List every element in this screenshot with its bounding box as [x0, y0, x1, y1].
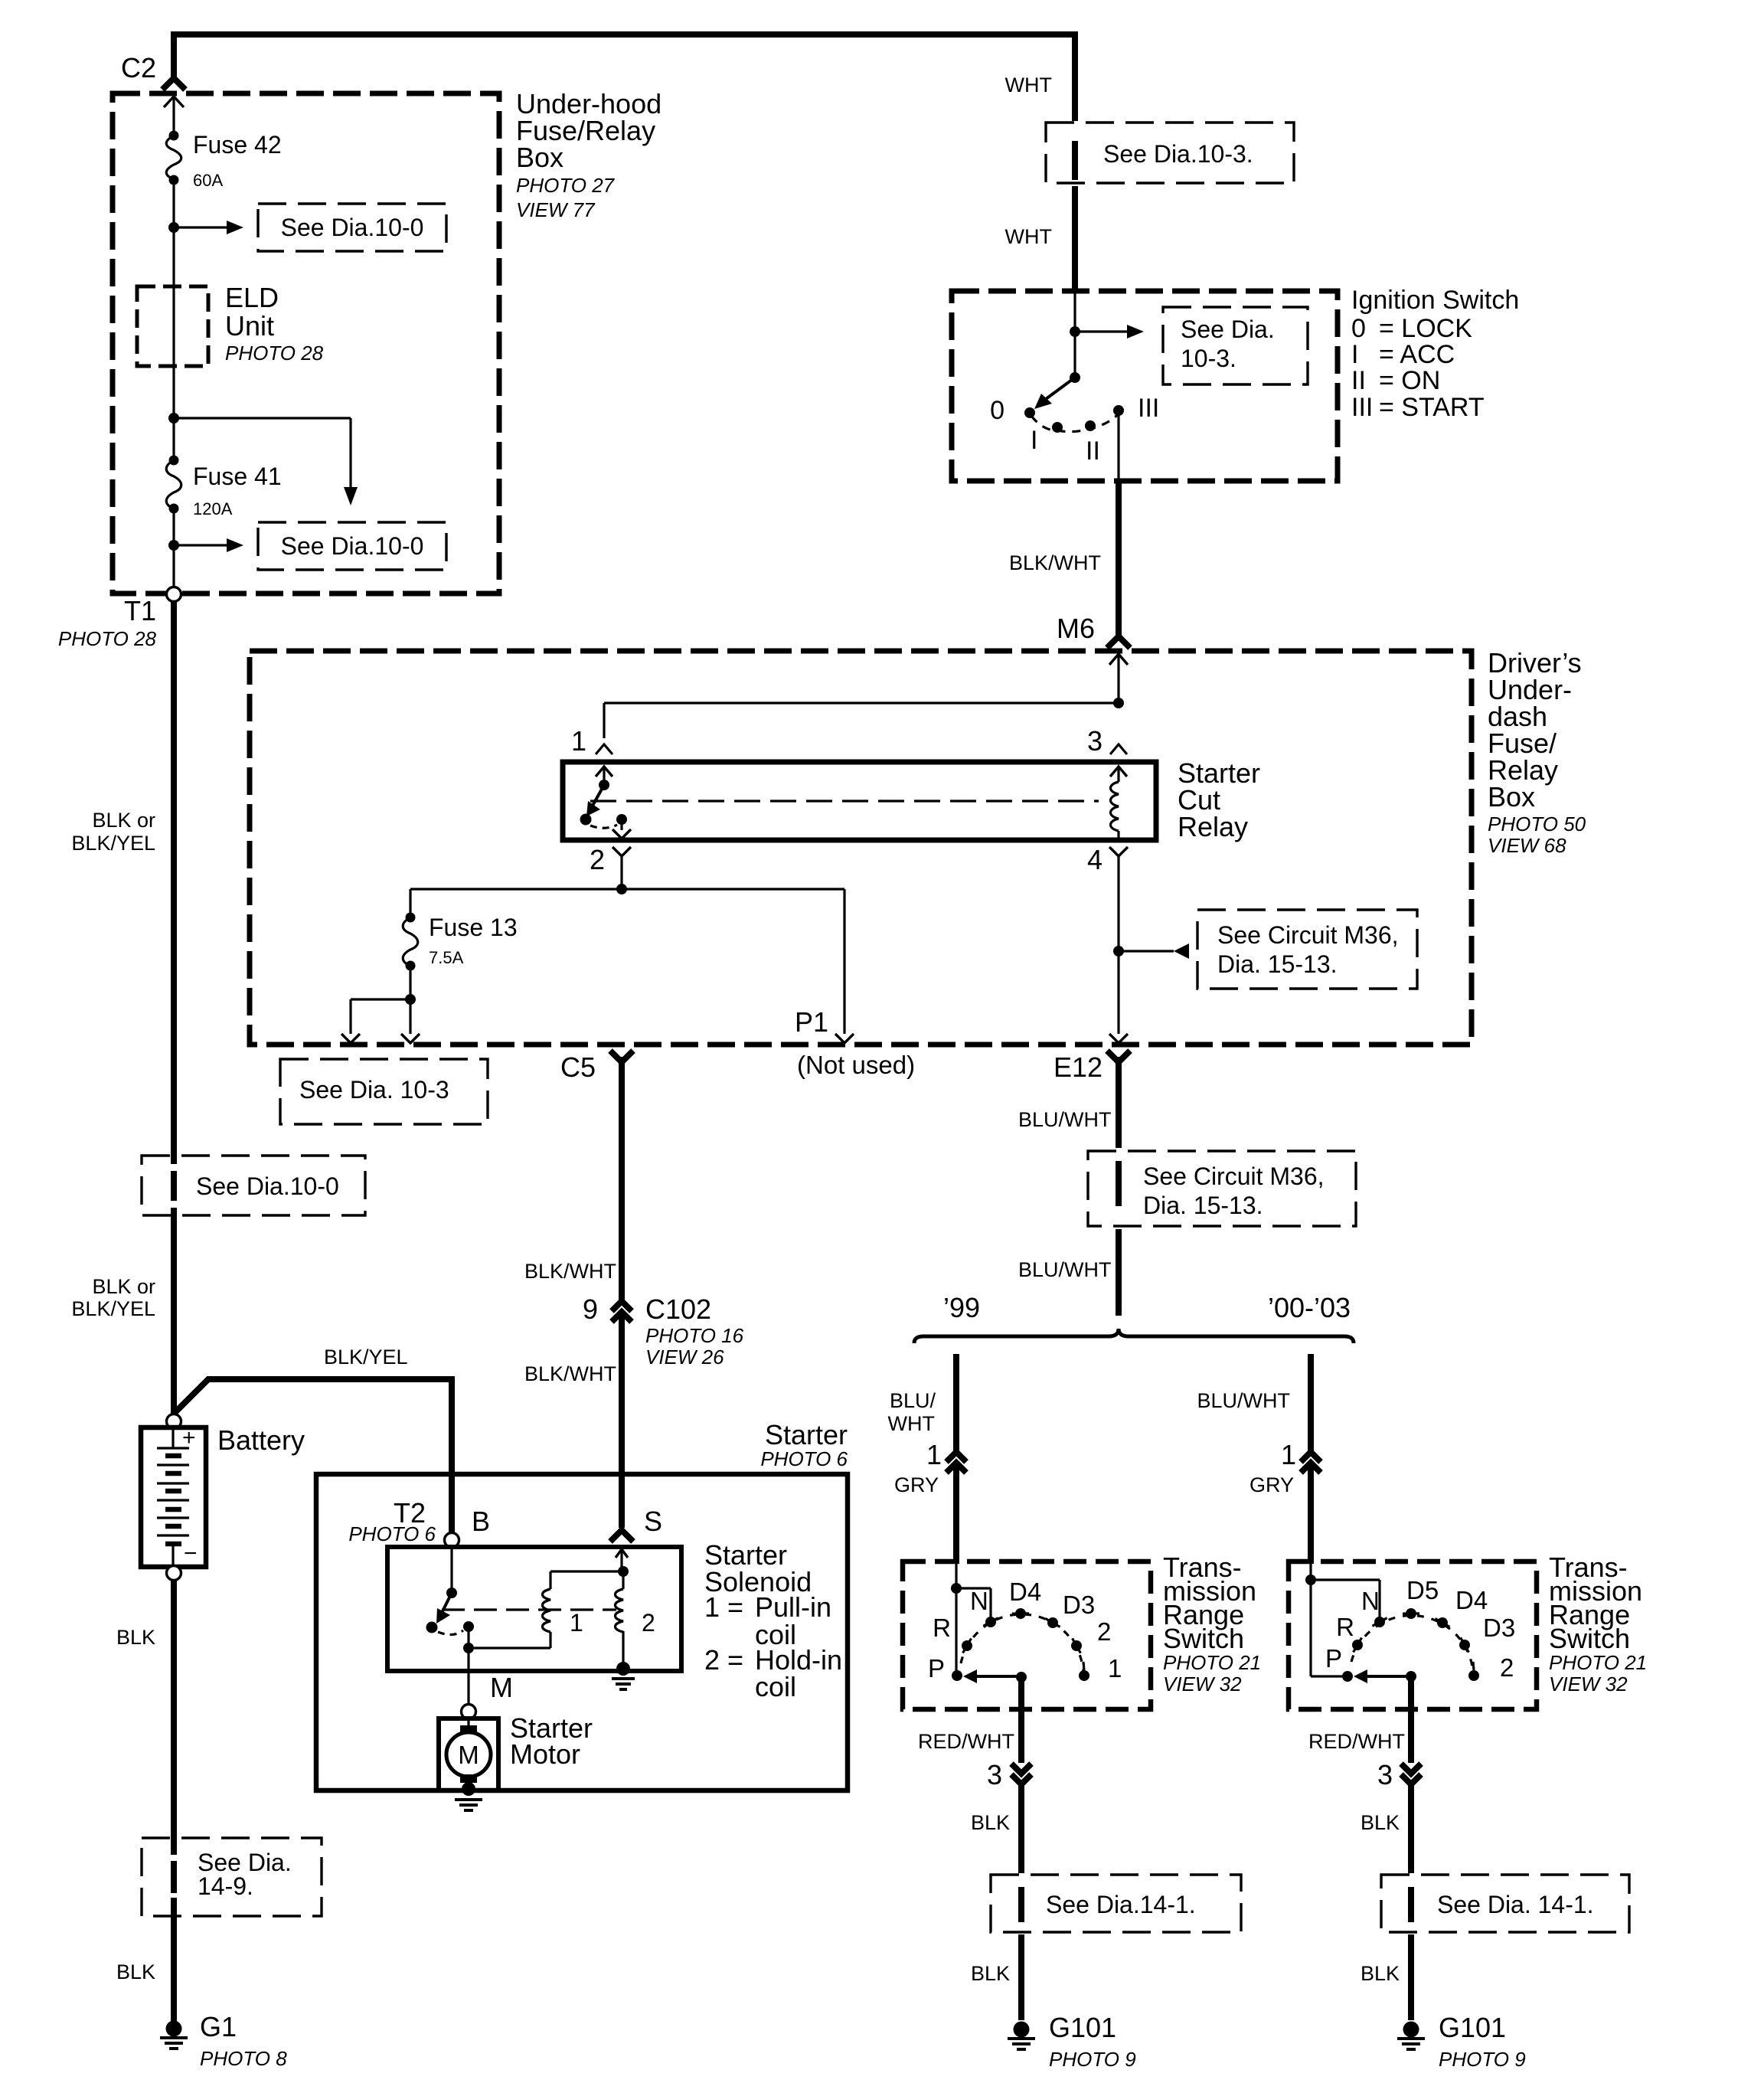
wire: GRY to range switch '00-'03	[1308, 1463, 1314, 1564]
wire: RED/WHT output '00-'03	[1408, 1676, 1414, 1763]
connector C2 at under-hood fuse box	[162, 78, 185, 90]
terminal B / T2	[445, 1533, 459, 1548]
svg-text:PHOTO 21: PHOTO 21	[1163, 1651, 1261, 1674]
wire: to pull-in coil	[469, 1646, 550, 1649]
svg-text:Fuse 41: Fuse 41	[193, 463, 282, 490]
svg-text:PHOTO 21: PHOTO 21	[1549, 1651, 1647, 1674]
svg-text:M6: M6	[1057, 613, 1095, 644]
svg-text:C5: C5	[560, 1051, 596, 1083]
svg-text:II: II	[1086, 437, 1100, 466]
svg-text:GRY: GRY	[1249, 1473, 1294, 1496]
svg-text:See Dia.10-0: See Dia.10-0	[281, 532, 424, 560]
junction below fuse 13	[409, 966, 411, 999]
svg-text:Fuse 42: Fuse 42	[193, 131, 282, 159]
svg-text:RED/WHT: RED/WHT	[1308, 1730, 1405, 1753]
fuse 42 60A	[169, 131, 179, 141]
connector 1 ('99)	[946, 1452, 966, 1462]
svg-text:Starter: Starter	[765, 1419, 848, 1450]
svg-text:3: 3	[1377, 1759, 1393, 1790]
wire: BLU/WHT E12 down	[1116, 1057, 1122, 1148]
ref See Dia.10-0 (lower)	[258, 522, 446, 570]
svg-text:−: −	[184, 1541, 198, 1566]
svg-text:P: P	[1325, 1644, 1342, 1673]
svg-text:PHOTO 28: PHOTO 28	[58, 627, 157, 650]
svg-text:T1: T1	[124, 595, 156, 626]
svg-text:P1: P1	[795, 1006, 828, 1038]
svg-text:BLU/WHT: BLU/WHT	[1018, 1108, 1112, 1131]
svg-text:0: 0	[1351, 314, 1366, 343]
wire: feed inside under-hood box	[172, 96, 175, 136]
ignition switch box (dashed)	[952, 291, 1338, 481]
wire: to E12	[1117, 951, 1119, 1034]
svg-text:1: 1	[926, 1439, 942, 1470]
svg-text:BLK/YEL: BLK/YEL	[71, 832, 155, 855]
ref See Dia.10-0 (left bus)	[142, 1156, 365, 1215]
battery	[167, 1414, 181, 1429]
ground G101 ('99)	[1014, 2022, 1030, 2038]
svg-text:N: N	[1361, 1587, 1380, 1615]
ref See Circuit M36 Dia. 15-13. (inside box)	[1197, 910, 1417, 989]
svg-text:D4: D4	[1009, 1578, 1041, 1606]
relay pin 1	[596, 744, 612, 754]
contacts '00-'03: P R N D5 D4 D3 2	[1342, 1671, 1353, 1682]
ground G101 ('00-'03)	[1403, 2022, 1419, 2038]
fuse 41 120A	[169, 456, 179, 466]
svg-text:WHT: WHT	[888, 1412, 935, 1435]
year split brace	[914, 1329, 1354, 1343]
svg-text:P: P	[928, 1654, 945, 1682]
svg-text:10-3.: 10-3.	[1181, 345, 1236, 372]
ref See Circuit M36 Dia. 15-13. (lower)	[1088, 1151, 1356, 1226]
junction E12 node / tap to circuit M36	[1113, 946, 1124, 956]
svg-text:coil: coil	[755, 1671, 796, 1702]
svg-text:See Dia.10-0: See Dia.10-0	[196, 1172, 339, 1200]
svg-text:BLU/: BLU/	[890, 1389, 936, 1412]
svg-text:D5: D5	[1406, 1576, 1439, 1604]
svg-text:PHOTO 16: PHOTO 16	[645, 1324, 744, 1347]
svg-text:D3: D3	[1063, 1591, 1095, 1619]
svg-text:60A: 60A	[193, 171, 223, 190]
starter cut relay body	[563, 762, 1156, 840]
ref See Dia. 10-3 (below box)	[280, 1059, 488, 1124]
transmission range switch '00-'03 box (dashed)	[1289, 1561, 1537, 1709]
svg-text:1: 1	[570, 1609, 583, 1637]
svg-text:I: I	[1351, 340, 1358, 369]
svg-text:BLK: BLK	[971, 1811, 1010, 1834]
wire: P1 not used	[843, 889, 845, 1034]
svg-text:I: I	[1031, 426, 1037, 455]
contact arc '00-'03	[1351, 1616, 1473, 1672]
ignition contact 0	[1024, 407, 1035, 418]
wiper '99 to P	[1016, 1672, 1027, 1682]
ELD unit (dashed)	[137, 286, 208, 366]
svg-text:1: 1	[1281, 1439, 1296, 1470]
ignition contact II	[1085, 420, 1096, 431]
svg-text:Dia. 15-13.: Dia. 15-13.	[1143, 1192, 1263, 1219]
junction to dia 10-0 tap 1	[168, 222, 179, 233]
svg-text:VIEW 68: VIEW 68	[1488, 834, 1566, 857]
pull-in coil 1	[543, 1589, 551, 1632]
range switch '00-'03 feed	[1309, 1564, 1312, 1580]
wire: BLK/WHT C5 to C102	[619, 1057, 625, 1300]
svg-text:See Dia. 10-3: See Dia. 10-3	[299, 1076, 449, 1104]
relay pin 4	[1109, 847, 1128, 856]
svg-text:BLK: BLK	[1361, 1962, 1400, 1985]
ref See Dia. 14-1. ('00-'03)	[1381, 1875, 1629, 1932]
svg-text:VIEW 77: VIEW 77	[516, 198, 596, 221]
svg-text:See Dia.: See Dia.	[1181, 316, 1275, 343]
svg-text:S: S	[644, 1506, 662, 1537]
svg-text:= START: = START	[1379, 393, 1485, 422]
connector 3 ('00-'03)	[1401, 1764, 1421, 1774]
wire: START output from III	[1117, 416, 1119, 481]
wire: pin2 node to fuse 13 and P1	[410, 888, 844, 890]
svg-text:D4: D4	[1455, 1586, 1488, 1614]
svg-text:Unit: Unit	[225, 310, 274, 342]
wire: battery positive bus BLK or BLK/YEL	[171, 602, 177, 1164]
svg-text:III: III	[1351, 393, 1373, 422]
svg-text:Battery: Battery	[217, 1424, 305, 1456]
svg-text:PHOTO 27: PHOTO 27	[516, 174, 616, 197]
svg-text:Dia. 15-13.: Dia. 15-13.	[1217, 950, 1338, 978]
ground G1	[166, 2021, 182, 2037]
solenoid fixed contact -> M	[463, 1621, 474, 1632]
svg-text:BLK/WHT: BLK/WHT	[1009, 551, 1101, 574]
solenoid moving contact dot	[426, 1622, 438, 1633]
under-hood fuse/relay box (dashed)	[113, 93, 499, 594]
relay internal dashed link	[590, 800, 1099, 802]
fuse 13 7.5A	[406, 913, 416, 923]
junction M node	[463, 1643, 474, 1653]
svg-text:R: R	[1336, 1613, 1354, 1641]
svg-text:WHT: WHT	[1005, 74, 1052, 96]
junction to dia 10-0 tap 2	[168, 413, 179, 423]
wire: battery negative BLK to G1	[171, 1581, 177, 1855]
connector 3 ('99)	[1011, 1764, 1031, 1774]
svg-text:Fuse 13: Fuse 13	[429, 914, 518, 941]
svg-text:Ignition Switch: Ignition Switch	[1351, 286, 1519, 315]
ref See Dia. 10-3. (inner)	[1163, 307, 1308, 384]
wire: BLK/YEL battery to starter B terminal	[175, 1379, 452, 1532]
svg-text:2: 2	[1097, 1617, 1111, 1646]
starter motor ground	[462, 1782, 475, 1796]
ignition contact III	[1113, 405, 1124, 416]
junction at pin 3 feed	[1113, 698, 1124, 708]
svg-text:4: 4	[1087, 844, 1102, 875]
wiper '00-'03 to P	[1406, 1671, 1416, 1682]
svg-text:= ACC: = ACC	[1379, 340, 1455, 369]
ignition contact I	[1052, 422, 1063, 433]
svg-text:1 =: 1 =	[704, 1591, 743, 1623]
svg-text:PHOTO 9: PHOTO 9	[1049, 2048, 1136, 2071]
svg-text:G101: G101	[1439, 2012, 1506, 2043]
svg-text:See Dia.10-0: See Dia.10-0	[281, 214, 424, 241]
contacts '99: P R N D4 D3 2 1	[952, 1670, 962, 1681]
svg-text:III: III	[1138, 394, 1159, 423]
range switch '99 feed	[955, 1564, 957, 1588]
svg-text:VIEW 32: VIEW 32	[1549, 1673, 1628, 1696]
svg-text:M: M	[458, 1741, 479, 1769]
connector C102 pin 9	[612, 1301, 632, 1311]
svg-text:+: +	[182, 1425, 196, 1450]
svg-text:Box: Box	[516, 142, 563, 173]
svg-text:2: 2	[590, 844, 605, 875]
svg-text:VIEW 26: VIEW 26	[645, 1346, 724, 1369]
starter assembly box	[316, 1474, 848, 1790]
wire: main battery feed top bus C2 to ignition switch	[174, 34, 1075, 121]
svg-text:BLK/WHT: BLK/WHT	[524, 1260, 616, 1283]
svg-text:C102: C102	[645, 1293, 711, 1325]
svg-text:2: 2	[642, 1609, 655, 1637]
svg-text:BLK or: BLK or	[92, 1275, 155, 1298]
svg-text:VIEW 32: VIEW 32	[1163, 1673, 1242, 1696]
svg-text:14-9.: 14-9.	[198, 1872, 253, 1900]
svg-text:D3: D3	[1483, 1614, 1515, 1642]
transmission range switch '99 box (dashed)	[903, 1561, 1151, 1709]
svg-text:PHOTO 8: PHOTO 8	[200, 2047, 287, 2070]
svg-text:PHOTO 50: PHOTO 50	[1488, 813, 1586, 835]
wire: BLK '99 to G101	[1018, 1784, 1024, 1873]
svg-text:BLK/WHT: BLK/WHT	[524, 1362, 616, 1385]
driver's under-dash fuse/relay box (dashed)	[250, 651, 1472, 1045]
svg-text:G1: G1	[200, 2011, 237, 2042]
svg-text:See Dia.14-1.: See Dia.14-1.	[1046, 1891, 1196, 1918]
contact arc '99	[961, 1614, 1083, 1672]
svg-text:GRY: GRY	[894, 1473, 939, 1496]
svg-text:See Circuit M36,: See Circuit M36,	[1217, 921, 1399, 949]
svg-text:BLK/YEL: BLK/YEL	[324, 1346, 408, 1369]
terminal S	[610, 1530, 633, 1542]
svg-text:BLK or: BLK or	[92, 809, 155, 832]
wire: BLK/WHT C102 to S	[619, 1312, 625, 1528]
svg-text:BLK: BLK	[971, 1962, 1010, 1985]
svg-text:PHOTO 6: PHOTO 6	[348, 1522, 436, 1545]
svg-text:1: 1	[1108, 1654, 1122, 1682]
svg-text:R: R	[933, 1614, 951, 1642]
wire: BLU/WHT '00-'03 branch	[1308, 1354, 1314, 1452]
svg-text:PHOTO 9: PHOTO 9	[1439, 2048, 1526, 2071]
svg-text:See Circuit M36,: See Circuit M36,	[1143, 1162, 1325, 1190]
svg-text:2 =: 2 =	[704, 1644, 743, 1676]
svg-text:Switch: Switch	[1163, 1623, 1244, 1654]
svg-text:WHT: WHT	[1005, 225, 1052, 248]
wire: fuse13 branch to dia 10-3 (right)	[409, 999, 411, 1034]
svg-text:G101: G101	[1049, 2012, 1116, 2043]
svg-text:(Not used): (Not used)	[797, 1051, 915, 1079]
svg-text:BLK: BLK	[116, 1626, 155, 1649]
wire: BLK '00-'03 to G101	[1408, 1784, 1414, 1873]
junction pin2 node	[616, 884, 627, 894]
svg-text:BLU/WHT: BLU/WHT	[1018, 1258, 1112, 1281]
svg-text:’00-’03: ’00-’03	[1268, 1292, 1351, 1323]
solenoid internal dashed link	[442, 1608, 616, 1610]
svg-text:1: 1	[571, 725, 586, 757]
svg-text:PHOTO 6: PHOTO 6	[760, 1447, 848, 1470]
svg-text:RED/WHT: RED/WHT	[918, 1730, 1014, 1753]
svg-text:See Dia. 14-1.: See Dia. 14-1.	[1437, 1891, 1594, 1918]
svg-text:PHOTO 28: PHOTO 28	[225, 342, 324, 365]
svg-text:Pull-in: Pull-in	[755, 1591, 831, 1623]
wire: fuse13 branch to dia 10-3 (left)	[349, 999, 351, 1034]
terminal T1	[167, 587, 181, 602]
svg-text:Switch: Switch	[1549, 1623, 1630, 1654]
svg-text:= ON: = ON	[1379, 366, 1440, 395]
relay pin 2	[612, 847, 631, 856]
svg-text:M: M	[490, 1672, 513, 1703]
starter solenoid box	[387, 1547, 681, 1671]
solenoid contact from B	[450, 1547, 452, 1593]
svg-text:3: 3	[1087, 725, 1102, 757]
ref See Dia. 14-9.	[142, 1838, 322, 1916]
ignition contact arc	[1031, 414, 1119, 432]
ignition rotary switch wiper	[1070, 372, 1080, 383]
terminal M	[462, 1705, 476, 1719]
svg-text:9: 9	[583, 1293, 598, 1325]
svg-text:= LOCK: = LOCK	[1379, 314, 1472, 343]
wire: GRY to range switch '99	[953, 1463, 959, 1564]
svg-text:’99: ’99	[943, 1292, 980, 1323]
connector 1 ('00-'03)	[1301, 1452, 1321, 1462]
svg-text:N: N	[970, 1587, 988, 1615]
ref See Dia.10-3.	[1046, 123, 1294, 183]
wire: M to starter motor	[467, 1648, 469, 1705]
wire: RED/WHT output '99	[1018, 1677, 1024, 1763]
starter motor	[439, 1718, 498, 1790]
hold-in coil 2	[616, 1589, 624, 1632]
svg-text:C2: C2	[121, 52, 156, 83]
relay coil	[1111, 782, 1119, 831]
junction ignition tap	[1070, 326, 1080, 337]
wire: M6 to relay pins 1 and 3	[1117, 654, 1119, 703]
ref See Dia.10-0 (upper)	[258, 204, 446, 251]
svg-text:Box: Box	[1488, 781, 1535, 813]
wire: BLU/WHT '99 branch	[953, 1354, 959, 1452]
svg-text:2: 2	[1500, 1653, 1514, 1682]
svg-text:ELD: ELD	[225, 282, 279, 313]
svg-text:7.5A: 7.5A	[429, 948, 464, 967]
svg-text:BLK: BLK	[1361, 1811, 1400, 1834]
svg-text:0: 0	[990, 396, 1004, 425]
relay contact (pin 2 side)	[580, 814, 592, 826]
svg-text:3: 3	[987, 1759, 1002, 1790]
wire: ignition feed inside box	[1073, 291, 1076, 378]
ref See Dia.14-1. ('99)	[991, 1875, 1241, 1932]
svg-text:BLK: BLK	[116, 1960, 155, 1983]
solenoid coil ground	[616, 1662, 630, 1676]
junction S node	[618, 1566, 629, 1577]
svg-text:BLK/YEL: BLK/YEL	[71, 1297, 155, 1320]
junction to dia 10-0 tap 3	[168, 540, 179, 551]
svg-text:II: II	[1351, 366, 1366, 395]
svg-text:Motor: Motor	[510, 1738, 580, 1770]
relay pin 3	[1110, 744, 1127, 754]
svg-text:Relay: Relay	[1178, 811, 1248, 842]
relay movable contact	[599, 780, 609, 790]
svg-text:B: B	[472, 1506, 490, 1537]
svg-text:E12: E12	[1053, 1051, 1102, 1083]
svg-text:120A: 120A	[193, 499, 233, 518]
svg-text:See Dia.10-3.: See Dia.10-3.	[1103, 140, 1253, 168]
svg-text:BLU/WHT: BLU/WHT	[1197, 1389, 1291, 1412]
